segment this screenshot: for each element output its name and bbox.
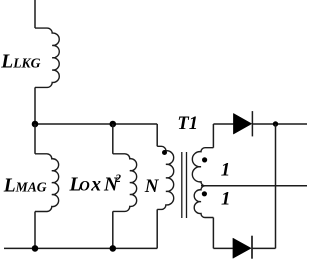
wire secondary top lead	[212, 124, 214, 148]
svg-text:2: 2	[114, 173, 121, 185]
transformer T1 primary winding N	[157, 146, 174, 209]
wire	[212, 218, 214, 249]
secondary bottom polarity dot	[202, 191, 207, 196]
svg-text:LLKG: LLKG	[0, 52, 40, 73]
wire right vertical	[275, 124, 277, 248]
transformer T1 core	[181, 152, 183, 218]
wire	[112, 211, 114, 248]
wire	[34, 212, 36, 249]
junction	[32, 245, 39, 252]
wire bottom bus	[4, 247, 157, 249]
output junction	[273, 121, 278, 126]
secondary top polarity dot	[202, 157, 207, 162]
wire	[34, 124, 36, 154]
wire to top diode	[213, 123, 233, 125]
diode D2 (bottom)	[233, 238, 251, 258]
wire center tap	[201, 185, 307, 187]
svg-text:x: x	[90, 174, 101, 195]
svg-text:1: 1	[221, 189, 231, 210]
wire top bus	[35, 123, 157, 125]
svg-text:LMAG: LMAG	[3, 176, 47, 197]
svg-text:T1: T1	[177, 114, 198, 134]
inductor LLKG	[35, 28, 59, 87]
wire to bottom diode	[213, 247, 233, 249]
node B junction	[110, 121, 117, 128]
transformer T1 secondary winding 1 (top)	[192, 148, 213, 186]
transformer T1 secondary winding 2 (bottom)	[194, 186, 213, 218]
wire	[156, 124, 158, 146]
node A junction	[32, 121, 39, 128]
wire	[34, 87, 36, 124]
svg-text:O: O	[79, 178, 90, 194]
wire	[252, 247, 276, 249]
junction	[110, 245, 117, 252]
primary polarity dot	[162, 150, 167, 155]
wire top output	[252, 123, 307, 125]
inductor LMAG	[35, 154, 59, 212]
wire	[156, 209, 158, 248]
wire top input	[34, 0, 36, 28]
svg-text:1: 1	[221, 160, 231, 181]
wire	[112, 124, 114, 154]
diode D1 (top)	[233, 113, 251, 134]
svg-text:N: N	[144, 176, 160, 197]
inductor Lo x N^2	[113, 154, 137, 212]
